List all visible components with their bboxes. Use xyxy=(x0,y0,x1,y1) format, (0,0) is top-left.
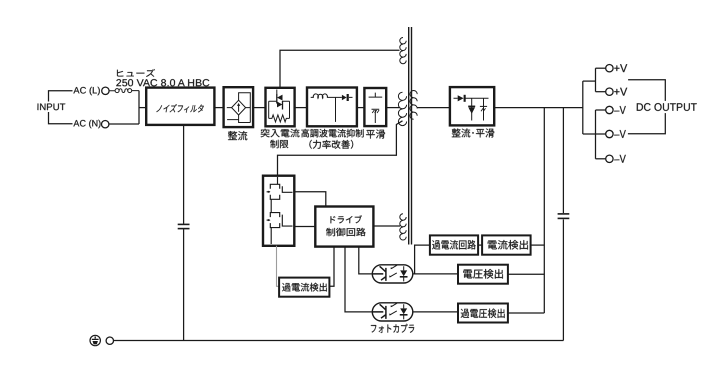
terminal AC N xyxy=(102,121,109,128)
label INPUT xyxy=(36,102,67,113)
label pfc 2 xyxy=(309,140,353,149)
wire feedback rail xyxy=(543,108,545,313)
fuse F1 xyxy=(109,89,139,93)
wire plus bracket xyxy=(583,80,596,82)
wire fuse to filter xyxy=(138,91,140,124)
photocoupler PC2 xyxy=(372,303,413,321)
transformer secondary winding xyxy=(410,91,417,120)
label drive 1 xyxy=(331,215,362,223)
wire switch to overcurrent detect xyxy=(277,246,280,286)
label photocoupler xyxy=(371,324,414,333)
wire drive to overcurrent detect xyxy=(329,247,334,287)
label overvoltage detect xyxy=(461,309,505,318)
wire minus bracket xyxy=(583,133,606,135)
wire dc output bracket xyxy=(628,80,665,134)
bridge rectifier symbol xyxy=(227,93,251,123)
terminal -V 3 xyxy=(606,155,613,162)
mosfet Q2 xyxy=(267,199,293,244)
wire AC N xyxy=(109,123,139,125)
label DC OUTPUT xyxy=(635,101,699,113)
transformer primary winding main xyxy=(398,92,406,125)
transformer feedback winding xyxy=(400,214,406,240)
terminal -V 2 xyxy=(606,130,613,137)
node INPUT bracket xyxy=(49,91,73,124)
wire rectifier to inrush xyxy=(253,107,265,109)
wire voltage detect to rail xyxy=(508,273,544,275)
block rectifier xyxy=(224,87,254,127)
wire pfc to smoothing xyxy=(357,107,365,109)
terminal AC L xyxy=(102,87,109,94)
inrush triac and resistor xyxy=(269,90,290,122)
block noise filter xyxy=(146,88,214,125)
label inrush 1 xyxy=(261,129,300,138)
mosfet Q1 xyxy=(267,177,293,199)
ground terminal xyxy=(106,337,113,344)
wire inrush to pfc xyxy=(295,107,307,109)
block output rectifier smoothing xyxy=(450,87,494,125)
block current detect xyxy=(482,235,530,254)
terminal +V 1 xyxy=(606,65,613,72)
block overcurrent circuit xyxy=(430,235,478,254)
pfc inductor and diode xyxy=(311,94,353,122)
block smoothing xyxy=(364,88,386,126)
block overvoltage detect xyxy=(458,304,508,323)
label fuse rating xyxy=(116,79,209,86)
label drive 2 xyxy=(326,228,365,236)
terminal +V 2 xyxy=(606,88,613,95)
wire overcurrent circuit to current detect xyxy=(478,244,482,246)
wire secondary to rectifier xyxy=(417,107,450,109)
label pfc 1 xyxy=(301,129,363,137)
wire switch to drive top xyxy=(294,192,326,207)
label overcurrent detect xyxy=(282,283,327,292)
block harmonic suppression PFC xyxy=(307,88,357,127)
wire main output rail xyxy=(494,107,583,109)
wire bottom ground rail xyxy=(114,340,564,342)
label voltage detect xyxy=(463,269,503,279)
label inrush 2 xyxy=(270,140,288,148)
block voltage detect xyxy=(458,265,508,284)
capacitor C1 ground xyxy=(178,223,190,225)
block overcurrent detect xyxy=(279,278,329,297)
terminal -V 1 xyxy=(606,106,613,113)
label noise filter xyxy=(156,104,203,112)
wire switch to drive left xyxy=(294,226,315,228)
label output rectifier xyxy=(452,128,494,137)
smoothing capacitor symbol xyxy=(369,93,383,123)
wire pc1 to voltage detect xyxy=(413,273,458,275)
wire pc2 to overvoltage detect xyxy=(413,311,458,313)
label current detect xyxy=(488,240,528,249)
block switching transistors xyxy=(263,176,294,246)
wire drive to feedback winding xyxy=(373,225,400,227)
label smoothing xyxy=(366,130,385,139)
wire filter ground rail xyxy=(183,125,185,224)
wire overcurrent circuit to pc1 xyxy=(415,245,430,274)
wire drive to photocoupler2 xyxy=(345,247,372,312)
wire filter to rectifier xyxy=(214,107,223,109)
block inrush current limit xyxy=(266,88,295,127)
block drive control xyxy=(315,207,373,247)
label AC (L) xyxy=(73,87,99,96)
label rectifier xyxy=(228,131,247,140)
wire drive to photocoupler1 xyxy=(359,247,373,274)
wire capacitor rail xyxy=(562,108,564,213)
wire output trunk xyxy=(582,81,584,134)
wire overvoltage detect to rail xyxy=(508,312,544,314)
wire current detect to rail xyxy=(531,244,545,246)
wire smoothing to transformer xyxy=(386,107,399,109)
capacitor C2 output xyxy=(558,213,570,215)
wire inrush top to transformer xyxy=(280,50,400,88)
photocoupler PC1 xyxy=(372,265,413,283)
ground protective earth symbol xyxy=(90,335,100,345)
label AC (N) xyxy=(73,120,100,129)
transformer primary winding upper xyxy=(400,38,406,64)
label fuse jp xyxy=(117,69,155,77)
output rectifier internals xyxy=(454,98,489,120)
wire primary bottom to switch xyxy=(278,121,403,176)
transformer T1 core xyxy=(408,27,410,245)
label overcurrent circuit xyxy=(432,240,476,249)
